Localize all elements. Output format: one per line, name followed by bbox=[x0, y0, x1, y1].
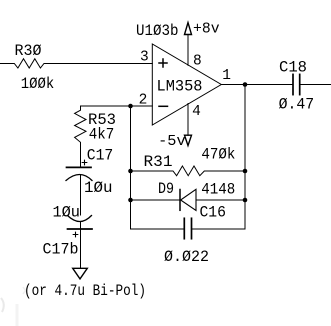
svg-text:4: 4 bbox=[192, 104, 201, 120]
svg-text:R3Ø: R3Ø bbox=[15, 42, 42, 60]
svg-text:1ØØk: 1ØØk bbox=[21, 75, 55, 93]
svg-text:4148: 4148 bbox=[201, 180, 235, 198]
svg-text:8: 8 bbox=[193, 54, 202, 70]
svg-text:C17b: C17b bbox=[43, 240, 79, 258]
svg-text:+8v: +8v bbox=[193, 22, 220, 38]
svg-text:C17: C17 bbox=[87, 147, 114, 165]
svg-text:C18: C18 bbox=[279, 58, 307, 76]
svg-text:U1Ø3b: U1Ø3b bbox=[136, 22, 179, 40]
svg-text:4k7: 4k7 bbox=[89, 126, 115, 144]
svg-text:C16: C16 bbox=[199, 203, 226, 221]
svg-text:2: 2 bbox=[139, 93, 148, 109]
svg-text:Ø.Ø22: Ø.Ø22 bbox=[164, 248, 209, 266]
svg-text:Ø.47: Ø.47 bbox=[279, 96, 315, 114]
svg-text:3: 3 bbox=[140, 50, 149, 66]
svg-text:R31: R31 bbox=[144, 153, 173, 171]
svg-text:(or 4.7u Bi-Pol): (or 4.7u Bi-Pol) bbox=[24, 282, 146, 300]
svg-text:-5v: -5v bbox=[158, 134, 186, 150]
svg-text:1: 1 bbox=[222, 68, 231, 84]
svg-text:1Øu: 1Øu bbox=[84, 179, 113, 197]
svg-text:D9: D9 bbox=[158, 180, 174, 198]
svg-text:LM358: LM358 bbox=[157, 77, 203, 95]
svg-text:1Øu: 1Øu bbox=[52, 203, 80, 221]
svg-text:47Øk: 47Øk bbox=[201, 145, 235, 163]
